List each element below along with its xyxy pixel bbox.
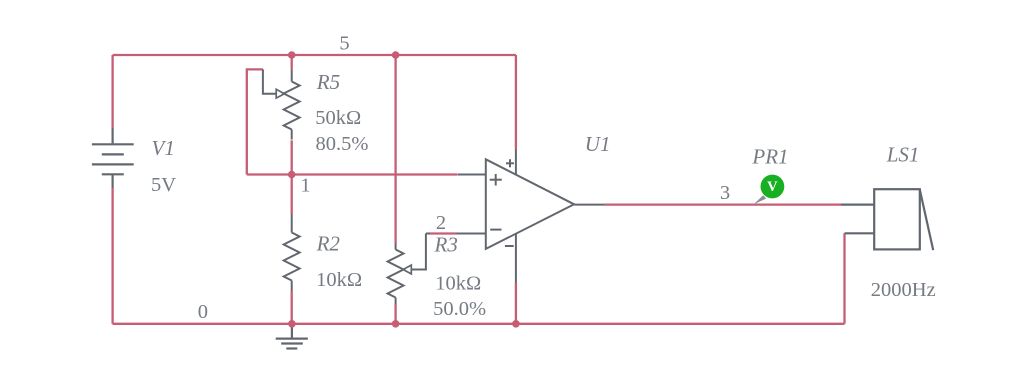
svg-text:U1: U1 [585,132,611,156]
resistor R2 [284,214,300,291]
wire speaker bottom return [843,233,845,323]
wire op-amp V+ vertical red [515,55,517,148]
potentiometer R3 [388,234,430,305]
wire R2 bottom red [291,291,293,324]
wire net 2 R3 wiper to op-amp [429,232,457,234]
wire mid vertical R3 bottom [394,304,396,324]
node dot bottom V- [512,320,520,328]
wire R5 bottom stub red [291,140,293,174]
svg-text:2000Hz: 2000Hz [871,279,936,301]
wire net 1 horizontal [247,173,458,175]
node dot net1 R5 bottom [288,171,296,179]
potentiometer R5 [263,69,300,139]
svg-text:80.5%: 80.5% [316,133,369,155]
battery V1 [92,127,134,188]
wire battery top vertical [111,55,113,127]
svg-text:50kΩ: 50kΩ [315,107,361,129]
wire mid vertical R3 top [394,55,396,243]
wire R2 top red [291,175,293,215]
wire net 3 output [604,203,841,205]
svg-text:V1: V1 [152,136,175,160]
wire op-amp V- vertical red [515,283,517,324]
speaker LS1 box [841,189,933,250]
svg-text:LS1: LS1 [886,142,920,166]
op-amp minus input symbol [490,229,501,231]
svg-text:10kΩ: 10kΩ [316,269,362,291]
R5 wiper arrowhead [276,89,284,98]
wire bottom net 0 horizontal [113,323,845,325]
op-amp plus input symbol [490,179,502,181]
svg-text:1: 1 [300,174,310,196]
svg-text:R5: R5 [316,70,340,94]
node dot top R5 [288,51,296,59]
svg-text:R3: R3 [434,232,458,256]
svg-text:V: V [767,179,778,195]
probe PR1 needle [754,195,767,204]
probe PR1 body [761,175,785,199]
op-amp U1 [457,148,605,283]
svg-text:5: 5 [339,33,349,55]
node dot ground [288,320,296,328]
svg-text:10kΩ: 10kΩ [435,272,481,294]
svg-text:5V: 5V [151,174,176,196]
svg-text:2: 2 [436,212,446,234]
svg-text:50.0%: 50.0% [433,298,486,320]
wire battery bottom vertical [111,188,113,324]
wire top net 5 horizontal [113,54,516,56]
node dot top R3 [392,51,400,59]
wire R5 top stub red [291,55,293,69]
wire R5 wiper loop red [247,69,263,174]
svg-text:3: 3 [720,182,730,204]
op-amp V plus symbol [506,162,514,164]
R3 wiper arrowhead [403,265,411,274]
ground [276,324,308,349]
svg-text:PR1: PR1 [751,145,788,169]
node dot bottom R3 [392,320,400,328]
svg-text:R2: R2 [316,232,341,256]
svg-text:0: 0 [198,301,208,323]
op-amp V minus symbol [505,245,514,247]
